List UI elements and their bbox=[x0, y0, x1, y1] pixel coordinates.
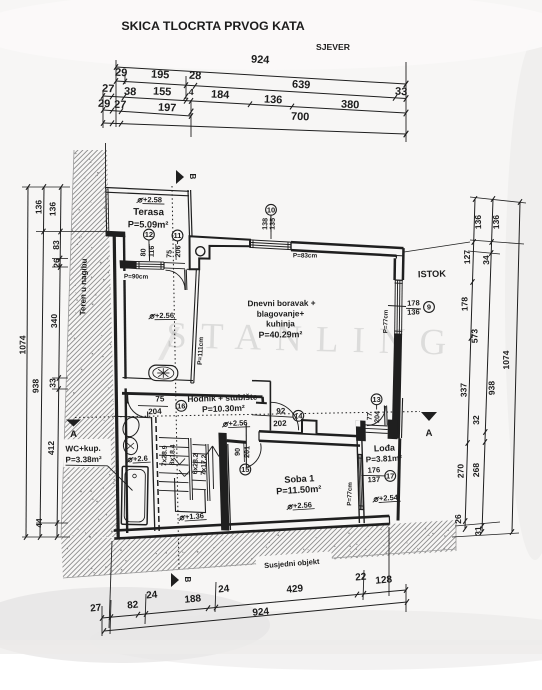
svg-text:22: 22 bbox=[355, 572, 367, 584]
left dimension chains (136 83 26 340 33 412 44 / 136 938 / 1074) bbox=[57, 187, 61, 537]
svg-text:P=83cm: P=83cm bbox=[293, 252, 318, 259]
svg-text:136: 136 bbox=[491, 215, 501, 230]
svg-text:Teren u nagibu: Teren u nagibu bbox=[78, 258, 88, 315]
svg-text:924: 924 bbox=[252, 606, 270, 619]
floor level markers bbox=[137, 195, 165, 205]
svg-text:136: 136 bbox=[33, 200, 43, 214]
svg-text:178: 178 bbox=[459, 297, 469, 312]
svg-text:270: 270 bbox=[455, 464, 465, 479]
svg-text:268: 268 bbox=[471, 463, 481, 478]
svg-text:137: 137 bbox=[367, 475, 380, 485]
svg-text:340: 340 bbox=[49, 314, 59, 328]
svg-text:33: 33 bbox=[47, 378, 57, 388]
svg-text:26: 26 bbox=[453, 514, 463, 524]
svg-text:29: 29 bbox=[98, 98, 111, 111]
svg-text:204: 204 bbox=[374, 411, 381, 423]
svg-text:38: 38 bbox=[124, 86, 137, 99]
svg-text:32: 32 bbox=[471, 415, 481, 425]
svg-text:12: 12 bbox=[145, 230, 153, 239]
svg-text:Soba 1: Soba 1 bbox=[284, 473, 315, 485]
svg-text:P=3.38m²: P=3.38m² bbox=[65, 455, 102, 465]
svg-text:178: 178 bbox=[407, 298, 420, 307]
svg-text:6x28.2: 6x28.2 bbox=[192, 453, 200, 474]
svg-text:188: 188 bbox=[184, 593, 202, 605]
svg-text:A: A bbox=[425, 428, 432, 439]
loggia (Loda) door and walls bbox=[356, 420, 366, 441]
svg-text:176: 176 bbox=[367, 465, 380, 475]
svg-text:29: 29 bbox=[115, 67, 128, 80]
svg-text:B: B bbox=[183, 577, 192, 583]
svg-text:700: 700 bbox=[291, 111, 310, 124]
svg-text:SKICA TLOCRTA PRVOG KATA: SKICA TLOCRTA PRVOG KATA bbox=[121, 19, 304, 33]
svg-text:195: 195 bbox=[151, 68, 170, 81]
svg-text:206: 206 bbox=[173, 245, 182, 257]
staircase (stubiste) bbox=[159, 438, 189, 439]
svg-text:9: 9 bbox=[427, 303, 431, 312]
svg-text:WC+kup.: WC+kup. bbox=[65, 444, 100, 454]
svg-text:24: 24 bbox=[218, 584, 230, 596]
building walls: terasa, living room, west wall, windows and doors bbox=[106, 188, 190, 192]
svg-text:7x17.2: 7x17.2 bbox=[200, 454, 208, 475]
svg-text:10: 10 bbox=[267, 205, 275, 214]
svg-text:639: 639 bbox=[292, 79, 311, 92]
svg-text:Dnevni boravak +: Dnevni boravak + bbox=[247, 299, 315, 308]
svg-text:8x18.4: 8x18.4 bbox=[169, 444, 177, 465]
svg-text:26: 26 bbox=[51, 258, 61, 268]
svg-text:16: 16 bbox=[177, 401, 185, 410]
svg-text:155: 155 bbox=[153, 86, 172, 99]
svg-text:STANLING: STANLING bbox=[166, 315, 461, 364]
svg-text:17: 17 bbox=[386, 472, 394, 481]
svg-text:136: 136 bbox=[47, 202, 57, 216]
svg-text:P=111cm: P=111cm bbox=[197, 337, 205, 366]
svg-text:+2.58: +2.58 bbox=[143, 195, 162, 204]
svg-text:1074: 1074 bbox=[17, 335, 27, 354]
svg-text:+2.56: +2.56 bbox=[228, 418, 247, 428]
svg-text:24: 24 bbox=[146, 589, 158, 601]
svg-text:77: 77 bbox=[367, 412, 374, 420]
svg-text:135: 135 bbox=[267, 218, 276, 230]
svg-text:1074: 1074 bbox=[501, 350, 511, 369]
svg-text:429: 429 bbox=[286, 583, 304, 595]
svg-text:75: 75 bbox=[155, 394, 165, 403]
svg-text:136: 136 bbox=[473, 215, 483, 230]
svg-text:92: 92 bbox=[276, 406, 286, 415]
svg-text:P=77cm: P=77cm bbox=[346, 482, 354, 506]
svg-text:82: 82 bbox=[127, 599, 140, 611]
svg-text:Lođa: Lođa bbox=[374, 443, 396, 454]
svg-text:127: 127 bbox=[462, 250, 472, 265]
right dimension chains (136 127 178 337 270 26 / 136 34 573 32 268 31 / 938 1074) bbox=[465, 199, 475, 529]
WC fixtures: washbasin, toilet, bathtub bbox=[120, 415, 142, 439]
svg-text:28: 28 bbox=[189, 70, 202, 83]
svg-text:ISTOK: ISTOK bbox=[418, 269, 447, 280]
top dimension chains (924 / 29 195 28 639 33 / 27 38 155 4 184 136 380 / 29 27 197 / 700) bbox=[116, 67, 406, 84]
svg-text:573: 573 bbox=[469, 329, 479, 344]
svg-text:A: A bbox=[70, 429, 77, 440]
svg-text:SJEVER: SJEVER bbox=[316, 42, 351, 52]
svg-text:7x28.9: 7x28.9 bbox=[161, 445, 169, 466]
svg-text:P=5.09m²: P=5.09m² bbox=[128, 219, 169, 230]
section markers A-A and B-B bbox=[176, 170, 184, 184]
svg-text:+2.6: +2.6 bbox=[133, 454, 148, 464]
svg-text:924: 924 bbox=[251, 53, 271, 66]
svg-text:P=40.29m²: P=40.29m² bbox=[258, 329, 302, 340]
svg-text:116: 116 bbox=[147, 245, 156, 257]
svg-text:+2.56: +2.56 bbox=[155, 311, 174, 320]
svg-text:31: 31 bbox=[473, 526, 483, 536]
svg-text:P=77cm: P=77cm bbox=[382, 309, 389, 333]
svg-text:938: 938 bbox=[30, 379, 40, 393]
svg-text:15: 15 bbox=[241, 465, 249, 474]
svg-text:kuhinja: kuhinja bbox=[266, 319, 295, 328]
svg-text:128: 128 bbox=[375, 574, 393, 586]
svg-text:204: 204 bbox=[148, 407, 162, 416]
svg-text:4: 4 bbox=[188, 87, 194, 97]
svg-text:P=10.30m²: P=10.30m² bbox=[202, 403, 245, 415]
svg-text:136: 136 bbox=[407, 307, 420, 316]
svg-text:412: 412 bbox=[46, 441, 56, 455]
svg-text:11: 11 bbox=[174, 231, 182, 240]
svg-text:27: 27 bbox=[90, 602, 103, 614]
svg-text:938: 938 bbox=[486, 381, 496, 396]
svg-text:83: 83 bbox=[51, 240, 61, 250]
svg-text:B: B bbox=[188, 174, 197, 180]
svg-text:Terasa: Terasa bbox=[133, 207, 165, 219]
svg-text:P=90cm: P=90cm bbox=[124, 273, 149, 280]
svg-text:136: 136 bbox=[264, 94, 283, 107]
svg-text:337: 337 bbox=[458, 383, 468, 398]
svg-text:202: 202 bbox=[273, 419, 287, 429]
svg-text:197: 197 bbox=[158, 102, 177, 115]
svg-text:13: 13 bbox=[372, 395, 380, 404]
svg-text:380: 380 bbox=[341, 99, 360, 112]
bottom dimension chains (27 82 24 188 24 429 22 128 / 924) bbox=[102, 590, 406, 618]
svg-text:blagovanje+: blagovanje+ bbox=[257, 309, 305, 318]
svg-text:90: 90 bbox=[233, 448, 242, 456]
svg-text:34: 34 bbox=[481, 255, 491, 265]
svg-text:14: 14 bbox=[294, 411, 303, 420]
svg-text:P=3.81m²: P=3.81m² bbox=[366, 454, 403, 465]
kitchen counter and sink bbox=[191, 270, 197, 383]
svg-text:27: 27 bbox=[102, 83, 115, 96]
svg-text:184: 184 bbox=[211, 89, 231, 102]
svg-text:201: 201 bbox=[242, 446, 251, 458]
